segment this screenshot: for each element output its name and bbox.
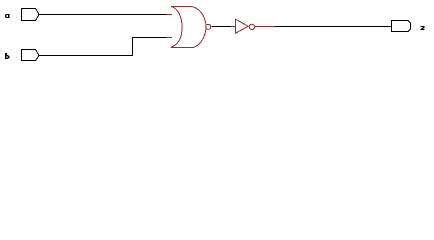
NOR gate U1 input stub b xyxy=(167,37,173,39)
port z xyxy=(392,21,411,32)
NOR gate U1 output bubble xyxy=(206,24,211,29)
NOR gate U1 input stub a xyxy=(167,14,173,16)
inverter U2 output stub xyxy=(255,26,276,28)
net wire z (inverter to port z) xyxy=(275,26,391,28)
inverter U2 input stub xyxy=(230,26,235,28)
port a xyxy=(22,9,39,21)
inverter U2 output bubble xyxy=(249,24,254,29)
label b xyxy=(5,53,10,59)
net wire n1 (NOR out to inverter) xyxy=(212,26,231,28)
wire a xyxy=(39,14,167,16)
NOR gate U1 body xyxy=(171,7,206,48)
inverter U2 triangle xyxy=(236,19,249,33)
wire b xyxy=(39,38,167,56)
label z xyxy=(421,26,425,30)
label a xyxy=(5,14,10,18)
port b xyxy=(22,50,39,61)
